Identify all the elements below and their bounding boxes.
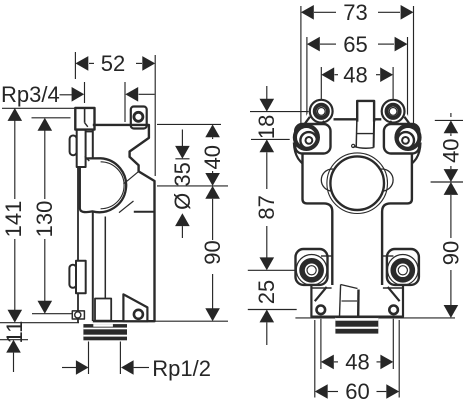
tab hook [352,144,355,147]
dim 52 arrow right [142,56,155,71]
outlet pipe lower box [95,299,111,321]
dim 40 left-view line [212,171,214,173]
dim diameter 35 tick [175,158,189,160]
ear circle right [371,169,393,191]
dome inner arc [101,162,125,209]
svg-text:52: 52 [101,51,125,76]
dim 87 arrow top (points up to 139.4) [260,139,275,152]
body left edge [92,125,94,321]
top clip plate [77,130,86,167]
side port ring left [295,126,318,149]
torso left edge [303,152,333,287]
svg-text:25: 25 [254,280,279,304]
side port tail right [412,143,421,164]
dim 40 right arrow bottom [444,169,459,182]
dim diameter 35 upper tail [181,130,183,147]
bottom bracket [311,285,403,317]
cone diagonal lower [119,201,134,213]
top boss port line [84,108,86,123]
outlet tab front [340,285,341,317]
tab divider [357,133,375,135]
clip check mark [85,156,90,161]
outlet pipe line [104,217,106,299]
dim 60 arrows [315,384,328,399]
lug hole left [317,306,326,315]
left chain tick 18 bottom [251,138,290,140]
svg-text:65: 65 [343,32,367,57]
dim 90 left-view bottom extension [150,320,228,322]
dim 52 line [89,62,94,64]
dim 90 left-view line [212,274,214,310]
side port medium circle right [397,132,414,149]
cone diagonal upper [124,171,139,184]
top boss left: circle + strut [301,114,326,128]
lower ring left [302,261,321,280]
lower plate left [296,249,328,285]
lug hole right [389,306,398,315]
top boss Rp3/4 port [75,108,94,130]
dim 73 arrows [301,5,314,20]
dim 52 arrow left [75,56,88,71]
dim 130 line [44,128,46,199]
dim 25 arrow below [260,310,275,323]
dim 40 right arrow top (points up) [444,120,459,133]
dim 40 left-view top extension [157,123,221,125]
dim 48 top arrows [321,67,334,82]
dim 65 arrows [307,37,320,52]
tick at lower plate centers [248,269,296,271]
svg-text:90: 90 [438,241,463,265]
screw block [72,311,84,319]
threaded outlet block left view [83,324,127,340]
svg-text:48: 48 [343,62,367,87]
side plate right [384,124,419,154]
dim 48 bottom extension lines [320,319,322,369]
dome (cartridge housing, D shape) [80,158,126,212]
svg-text:60: 60 [345,379,369,404]
dim 60 extension lines [314,320,316,398]
torso right edge [382,152,412,287]
threaded outlet block right view [335,316,378,333]
tick at lug hole centers [248,309,297,311]
back spine [77,167,79,261]
side port small circle right [402,137,409,144]
dim 130 bottom extension [32,313,82,315]
dim 73 extension lines [300,6,302,130]
side plate left [295,124,330,154]
svg-text:Rp3/4: Rp3/4 [1,82,60,107]
bottom lug hole [134,310,143,319]
dim 40 left-view arrow bottom / bowtie top [205,173,220,186]
bottom lug bracket [123,294,147,321]
dim 18 arrow above [266,86,268,99]
top lug square [131,107,147,129]
dim 48 bottom arrows [321,355,334,370]
svg-text:90: 90 [200,240,225,264]
dim 90 left-view arrow top [205,186,220,199]
dim 130 arrow bottom [38,301,53,314]
top circle left [315,105,328,118]
top boss right: circle + strut [389,114,414,128]
svg-text:18: 18 [254,115,279,139]
tab lower left line [355,119,358,147]
port axis extension line [84,82,86,103]
lower boss circle right [388,254,419,285]
inner ledge [134,211,155,213]
svg-text:Rp1/2: Rp1/2 [152,356,211,381]
tab lower right line [373,119,376,147]
svg-text:48: 48 [345,350,369,375]
body top edge [334,118,382,120]
dim 141 arrow bottom [8,310,23,323]
bottom clip bump [69,265,76,288]
dim 48 top line [335,74,339,76]
dim diameter 35 arrow bottom [175,213,190,226]
svg-text:141: 141 [1,201,26,238]
bottom extension line right view [295,317,335,319]
dim 90 right arrow top [444,182,459,195]
dim 11 arrow below [6,340,21,353]
dim Rp1/2 arrow left [62,367,76,369]
port check mark [85,123,88,127]
left chain tick 18 top [250,111,309,113]
dim diameter 35 arrow top [175,146,190,159]
dim 130 tick top [32,117,71,119]
dim Rp1/2 arrow right [121,360,134,375]
svg-text:87: 87 [254,195,279,219]
svg-text:40: 40 [438,138,463,162]
boss step [86,131,93,133]
dim 90 left-view arrow bottom [205,308,220,321]
central outer thin circle [327,153,388,214]
dim 141 tick top [2,107,75,109]
dim Rp1/2 extension lines [88,342,90,375]
bowtie tick at valve center [157,185,228,187]
lower plate right [387,249,419,285]
bottom clip plate [76,261,86,294]
side port medium circle left [300,132,317,149]
rear-face arrow pointing left [139,93,155,95]
ear circle left [321,169,343,191]
dim 48 top extension lines [320,67,322,101]
lower boss circle left [296,254,327,285]
lower ring right [393,261,412,280]
screw on back plate [75,312,81,318]
side port small circle left [306,137,313,144]
plate inner edge left [321,255,332,257]
dim 141 line [14,119,16,200]
dim 52 extension line right (long front-face extension) [154,55,156,176]
svg-text:73: 73 [343,0,367,25]
dim 90 right arrow bottom [444,305,459,318]
central valve circle [330,156,384,210]
side port ring right [397,126,420,149]
top lug hole [134,112,143,121]
label Rp3/4 leader [60,94,73,96]
dim 11 bottom extension [0,339,28,341]
dim 87 arrow bottom [260,257,275,270]
top clip bump [70,136,77,156]
dim 141 bottom extension [0,322,79,324]
bracket top edges [311,287,331,289]
dim 141 arrow top [8,108,23,121]
dim 52 extension line left [74,52,76,79]
top tab [357,101,374,122]
dim 73 line [314,11,336,13]
dim 40 left-view arrow top [205,124,220,137]
dim 130 arrow top [38,118,53,131]
main body outline [93,125,155,321]
dim 65 extension lines [306,37,308,124]
tab bottom curve [354,146,374,148]
right chain: tick 40 top [435,119,463,121]
side port tail left [294,143,303,164]
rear-face extension line [124,82,126,122]
svg-text:130: 130 [32,201,57,238]
svg-text:40: 40 [200,145,225,169]
bracket bevels [315,287,400,301]
tick at valve center right [431,181,463,183]
plate inner edge right [383,255,394,257]
dim 65 line [320,43,336,45]
top circle right [387,105,400,118]
